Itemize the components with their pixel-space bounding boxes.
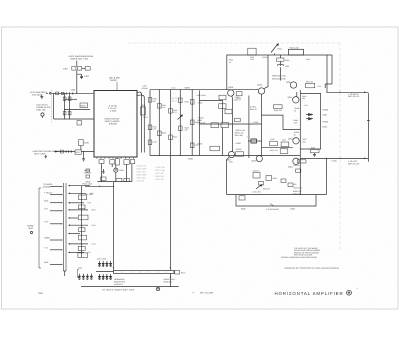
right main vertical rail (299, 90, 301, 195)
wire vertical x159 (158, 90, 160, 156)
collector bus below block (97, 181, 132, 183)
capacitor C336 (277, 55, 290, 62)
capacitor C306B (235, 118, 241, 122)
wire caps feed to delay bus (96, 271, 114, 273)
junction centre dots (222, 123, 262, 141)
svg-text:R338 15K: R338 15K (274, 109, 283, 112)
svg-text:C335 .01: C335 .01 (170, 100, 178, 103)
svg-text:R344 8K: R344 8K (306, 80, 314, 83)
bias resistor R363 (259, 182, 264, 186)
box R305 (80, 103, 88, 108)
resistor R386 (79, 228, 86, 232)
resistor R329 on cable (140, 104, 145, 115)
svg-text:R326 56K: R326 56K (137, 177, 147, 180)
wire vertical x222.5 (222, 100, 224, 156)
svg-text:C328 120: C328 120 (155, 178, 165, 181)
svg-text:+120: +120 (198, 102, 202, 105)
svg-text:C313: C313 (246, 136, 250, 139)
divider chain vertical (81, 186, 83, 257)
svg-text:(FRONT): (FRONT) (109, 123, 118, 126)
resistor R332 (158, 104, 162, 109)
pot R301 (41, 113, 44, 118)
label L320 cable (142, 85, 149, 90)
value gray mid column (170, 97, 179, 103)
pot R338 arrow (178, 115, 183, 120)
trimmer capacitor column g (86, 274, 88, 280)
svg-text:+8.5V: +8.5V (91, 209, 97, 212)
resistor R330 (148, 98, 152, 103)
riser wires below block (102, 164, 132, 182)
svg-text:Q344: Q344 (288, 96, 293, 99)
svg-text:+R341 150K: +R341 150K (82, 182, 93, 185)
delay line bus L350 (114, 270, 175, 273)
wire peaking hairpin (236, 195, 316, 207)
transistor Q314 (257, 55, 268, 94)
wire mid row (64, 109, 90, 111)
svg-text:R337: R337 (173, 135, 177, 138)
svg-text:B354: B354 (291, 207, 295, 210)
wafer bottom stub (64, 271, 67, 276)
resistor R384 (79, 205, 86, 209)
svg-text:L304 +6.09: L304 +6.09 (197, 94, 206, 97)
svg-text:1-MAG: 1-MAG (110, 110, 117, 113)
transistor Q334 (286, 81, 297, 88)
svg-text:R343 C343: R343 C343 (290, 46, 299, 49)
scattered value labels centre columns (144, 98, 199, 147)
trimmer capacitor column b (102, 261, 104, 267)
trimmer capacitor column c (106, 261, 108, 267)
junction lower row (64, 118, 65, 119)
resistor R313c (251, 139, 257, 143)
junction sawtooth (83, 151, 84, 152)
ground sawtooth (82, 152, 85, 162)
svg-text:R360 5K: R360 5K (263, 188, 271, 191)
transistor Q354 (288, 138, 299, 145)
svg-text:C336: C336 (285, 59, 289, 62)
svg-text:PARTIAL HORIZONTAL AMPLIFIER B: PARTIAL HORIZONTAL AMPLIFIER BOARD (281, 256, 318, 259)
bracket caps group (78, 270, 80, 278)
svg-text:+ C369: + C369 (331, 160, 337, 163)
junction node gate/input (76, 93, 77, 94)
trimmer capacitor column f (82, 274, 84, 280)
svg-text:C304A: C304A (262, 56, 268, 59)
svg-text:R366 6.8K: R366 6.8K (294, 187, 303, 190)
svg-text:(VIA J301): (VIA J301) (32, 94, 42, 97)
wire vertical x180 (179, 90, 181, 156)
shield dashed input (51, 90, 53, 123)
svg-text:MAG: MAG (44, 199, 49, 202)
diode CR352 (306, 118, 313, 120)
wire to switch (85, 186, 114, 188)
wire emitter Q303 down (227, 157, 230, 195)
wire vertical x249 (248, 96, 250, 159)
below-block resistor R322 (110, 160, 115, 164)
labels R336 C342 (272, 75, 286, 81)
sawtooth input label (32, 150, 60, 156)
svg-text:Q364: Q364 (288, 166, 293, 169)
circled plus mark (347, 290, 352, 295)
capacitor C301 on input (56, 92, 64, 95)
svg-text:R327 270K: R327 270K (155, 169, 166, 172)
resistor ticks sawtooth (66, 150, 71, 152)
resistor R302 top (248, 48, 256, 61)
svg-text:DC SHIFT: DC SHIFT (249, 123, 258, 126)
box R317 (75, 150, 81, 154)
svg-text:C361: C361 (78, 267, 82, 270)
resistor R314 (211, 123, 219, 128)
label SW302 above block (109, 77, 120, 91)
resistor R328 lower (124, 178, 129, 181)
svg-text:SWEEP GEN. V135: SWEEP GEN. V135 (70, 58, 89, 61)
input connector J301 (46, 92, 51, 94)
contact rows left of wafer (50, 186, 63, 265)
wire vertical x150 (149, 90, 151, 156)
svg-text:REV. JUN 1969: REV. JUN 1969 (200, 292, 213, 295)
svg-text:R363 1K: R363 1K (294, 164, 302, 167)
svg-text:R340: R340 (185, 100, 189, 103)
right column value labels (294, 107, 300, 137)
wire bottom return line (227, 158, 327, 194)
value list gray column 1 (137, 165, 148, 183)
svg-text:R301 1M): R301 1M) (37, 109, 46, 112)
trimmer capacitor column h (90, 274, 92, 280)
svg-text:R347: R347 (271, 138, 275, 141)
resistor R306 (63, 112, 66, 115)
resistor R371 output (175, 271, 185, 275)
svg-text:+1.2V: +1.2V (91, 243, 97, 246)
wire long vertical to delay line left (113, 182, 115, 271)
resistor R389 (78, 253, 88, 258)
shield boundary dash-dot line (128, 43, 340, 250)
transistor Q344 (288, 92, 299, 103)
switch wafer bars (64, 183, 67, 271)
trimmer capacitor column a (98, 261, 100, 267)
resistor R307 (68, 112, 71, 115)
transistor Q364 (288, 158, 299, 168)
diode CR350 (306, 113, 313, 115)
junction output dots (326, 92, 341, 159)
svg-text:MAG: MAG (29, 227, 34, 230)
svg-text:+ TRACE: + TRACE (44, 191, 53, 194)
CRT deflection plate bar (367, 93, 370, 161)
svg-text:R336 5.6K C341: R336 5.6K C341 (272, 75, 286, 78)
svg-text:R311 39K: R311 39K (235, 134, 244, 137)
resistor R315 (221, 123, 229, 128)
resistor R304 (68, 97, 71, 100)
resistor R310 (225, 109, 232, 114)
transistor Q303 lower (226, 96, 235, 161)
wire row y100.5 (200, 100, 223, 102)
svg-text:R351 470: R351 470 (270, 149, 278, 152)
resistor R343 top (289, 46, 304, 55)
svg-text:R328 10K: R328 10K (155, 175, 165, 178)
svg-text:+215: +215 (317, 85, 321, 88)
gate input text (68, 55, 93, 61)
svg-text:C331: C331 (153, 140, 157, 143)
rail +225V (150, 87, 258, 90)
vertical branch x64.5 (64, 93, 66, 119)
svg-text:R307A 1M: R307A 1M (235, 131, 244, 134)
value gray labels left-centre (198, 117, 206, 146)
block SW302 horizontal display switch (94, 91, 137, 160)
attenuator C302 (63, 67, 90, 71)
svg-text:B356: B356 (241, 207, 245, 210)
svg-text:C342: C342 (195, 143, 199, 146)
svg-text:C320 5-25: C320 5-25 (137, 165, 147, 168)
resistor R339 (179, 126, 183, 131)
svg-text:HORIZONTAL AMPLIFIER: HORIZONTAL AMPLIFIER (275, 291, 344, 296)
svg-text:+ R309: + R309 (235, 142, 241, 145)
resistor R312 (236, 92, 242, 100)
svg-text:+R350: +R350 (322, 109, 328, 112)
vertical branch x69.5 (69, 95, 71, 119)
svg-text:DEFL PLATE: DEFL PLATE (348, 163, 360, 166)
capacitor C364 box (298, 160, 307, 163)
svg-text:GEN. V161B: GEN. V161B (34, 152, 46, 155)
contact rows right of wafer (68, 185, 90, 253)
resistor R303 (63, 97, 66, 100)
block inner text HORIZONTAL DISPLAY SWITCH (105, 105, 121, 126)
arrow into delay line left (113, 267, 115, 269)
resistor R348 (270, 141, 278, 146)
bias resistor R362 (288, 183, 293, 187)
svg-text:C321 .001: C321 .001 (137, 171, 147, 174)
resistor R311 (219, 95, 226, 100)
transistor Q304 (227, 55, 234, 96)
capacitor C358 (253, 170, 261, 179)
resistor R366 (296, 169, 301, 172)
resistor R326 lower (101, 177, 106, 180)
arrow sawtooth feed (54, 151, 57, 153)
rail +225V upper right (227, 54, 333, 56)
capacitor C311 (219, 104, 226, 109)
junction input (64, 93, 65, 94)
vertical link x53.5 (53, 93, 55, 119)
wire right output top (327, 55, 368, 92)
scattered labels right loop (270, 95, 308, 152)
svg-text:TO HORIZ SWEEP AMP V350: TO HORIZ SWEEP AMP V350 (102, 288, 135, 291)
trimmer capacitor lower row a (98, 274, 100, 280)
svg-text:R322: R322 (144, 116, 148, 119)
svg-text:R325 100K: R325 100K (137, 174, 148, 177)
svg-text:R359: R359 (273, 177, 277, 180)
svg-text:Q334: Q334 (286, 81, 291, 84)
svg-text:Q313: Q313 (252, 159, 257, 162)
label horiz gain (164, 278, 176, 284)
chassis terminal symbol (156, 287, 159, 290)
resistor R327 lower (116, 178, 122, 181)
svg-text:C325 82: C325 82 (137, 180, 145, 183)
resistor R351b (280, 149, 288, 154)
wire rail right drop (325, 55, 332, 88)
below-block capacitor C322 (115, 159, 119, 165)
svg-text:R325: R325 (120, 169, 124, 172)
capacitor C331 (148, 140, 152, 145)
svg-text:+R352: +R352 (322, 121, 328, 124)
junction dots on rails (159, 89, 193, 156)
svg-text:R341: R341 (195, 121, 199, 124)
below-block resistor R321 (99, 160, 104, 164)
trimmer capacitor column d (109, 261, 111, 267)
svg-text:R370 ADJ: R370 ADJ (164, 281, 173, 284)
trimmer capacitor lower row d (109, 274, 111, 280)
wire vertical x192 (191, 90, 193, 156)
capacitor C342 (190, 143, 194, 148)
capacitor C306 (77, 121, 82, 125)
note voltage waveform conditions (281, 247, 321, 259)
resistor R385 (79, 215, 89, 220)
label horiz display (84, 169, 92, 174)
svg-text:+30: +30 (293, 183, 296, 186)
svg-text:T502: T502 (38, 292, 44, 295)
ground below block (102, 169, 105, 174)
inductor L336 (278, 61, 290, 80)
trimmer capacitor bank labels (78, 258, 106, 270)
resistor B356 box (239, 196, 245, 211)
junction lower wire (113, 186, 114, 187)
wire vertical x199.5 (199, 91, 201, 156)
svg-text:C352: C352 (322, 126, 327, 129)
svg-text:(NORM): (NORM) (43, 186, 50, 189)
svg-text:+12.6: +12.6 (171, 87, 176, 90)
wire delay to ground bus (170, 274, 172, 287)
capacitor C313 (246, 136, 262, 144)
capacitor C310 (236, 152, 244, 156)
svg-text:MAG: MAG (44, 261, 49, 264)
svg-text:C358 10: C358 10 (253, 170, 260, 173)
wire input line (51, 92, 94, 94)
trimmer capacitor lower row c (106, 274, 108, 280)
svg-text:4.7K PEAKING: 4.7K PEAKING (266, 208, 279, 211)
resistor R342 (190, 120, 194, 125)
resistor R338b (274, 105, 283, 112)
svg-text:22M: 22M (229, 161, 233, 164)
svg-text:R333: R333 (162, 131, 166, 134)
svg-text:R346 12K C346: R346 12K C346 (272, 78, 285, 81)
label to left defl plate (348, 160, 360, 166)
switch row labels left (43, 183, 53, 264)
centre value labels (234, 96, 258, 151)
resistor R383 (79, 195, 87, 200)
svg-text:+150V SW: +150V SW (155, 166, 165, 169)
svg-text:SW302: SW302 (110, 79, 118, 82)
svg-text:Q354: Q354 (288, 138, 293, 141)
box R318 (210, 146, 220, 151)
coax cable pair from block (137, 92, 144, 152)
switch row value labels right (82, 182, 97, 254)
resistor R349 (281, 142, 289, 147)
svg-text:R370: R370 (181, 272, 185, 275)
wire lower feedback row (262, 147, 293, 149)
left lower parts R319 (86, 169, 92, 184)
svg-text:R334: R334 (278, 48, 282, 51)
resistor R344 (306, 80, 315, 87)
resistor R365 (311, 147, 320, 157)
svg-text:R314 2K: R314 2K (250, 108, 258, 111)
svg-text:R365: R365 (311, 147, 315, 150)
svg-text:+225V: +225V (184, 87, 191, 90)
ground bus bottom (81, 286, 179, 288)
capacitor C303 branch (77, 74, 90, 79)
svg-text:NORM: NORM (44, 237, 50, 240)
resistor R331 (148, 125, 152, 130)
wire left output bottom (300, 157, 368, 159)
wire long vertical to delay line right (170, 156, 172, 271)
switch SW350 bracket (27, 188, 41, 268)
wire gate input down (76, 61, 78, 94)
svg-text:WWW.ELECTROTANYA.COM-SEARCHABL: WWW.ELECTROTANYA.COM-SEARCHABLE (285, 267, 340, 270)
ground sawtooth label (45, 155, 47, 158)
svg-text:C350: C350 (322, 114, 327, 117)
value list gray column 2 (155, 166, 166, 181)
resistor R316 vertical (79, 140, 90, 152)
staircase wire to output stage (262, 115, 301, 129)
svg-text:C310B: C310B (236, 148, 242, 151)
wire lower input row (54, 118, 95, 120)
svg-text:C361 .005: C361 .005 (253, 191, 261, 194)
svg-text:C327 .047: C327 .047 (155, 172, 165, 175)
resistor R337 (169, 135, 173, 140)
feedback loop box (300, 94, 320, 150)
scattered labels upper right (229, 56, 321, 88)
bias resistor R361 (281, 179, 286, 183)
wire vertical x170 (170, 90, 172, 156)
below-block resistor R324 (130, 160, 135, 164)
svg-text:+2.5V: +2.5V (91, 224, 97, 227)
rail -150V (150, 156, 300, 161)
svg-text:C347: C347 (282, 139, 286, 142)
svg-text:DEFL PLATE: DEFL PLATE (348, 95, 360, 98)
ground input (40, 95, 43, 99)
below-block resistor R323 (124, 160, 129, 165)
svg-text:(COAX): (COAX) (142, 87, 149, 90)
transistor Q313 lower (252, 94, 263, 162)
volts probe note (37, 104, 51, 112)
resistor R341 (190, 100, 194, 105)
pot R360 adj (256, 185, 271, 191)
svg-text:+104: +104 (304, 104, 308, 107)
inductor peaking label (266, 204, 279, 212)
resistor R388 (78, 246, 85, 250)
value column right (322, 109, 328, 129)
label to right defl plate (348, 93, 360, 98)
resistor ticks input (66, 92, 73, 94)
resistor R359 (266, 176, 277, 181)
resistor R333 (158, 131, 162, 136)
resistor R340 (179, 98, 183, 103)
pot R325 norm regis (114, 168, 124, 172)
resistor R336 (169, 109, 173, 114)
wire row y125 (200, 123, 223, 125)
wire sawtooth line (57, 151, 94, 153)
svg-text:10%: 10% (250, 58, 254, 61)
wire upper link row (65, 98, 77, 100)
svg-text:L336: L336 (285, 65, 289, 68)
ext horiz input label (30, 91, 48, 97)
svg-text:C357 C358: C357 C358 (97, 258, 106, 261)
trimmer capacitor column e (78, 274, 80, 280)
svg-text:L343: L343 (306, 58, 310, 61)
trimmer capacitor lower row b (102, 274, 104, 280)
svg-text:-150V: -150V (188, 158, 194, 161)
svg-text:(ADJUST): (ADJUST) (114, 283, 123, 286)
wire row y124 centre (223, 123, 262, 125)
svg-text:R329: R329 (141, 104, 145, 107)
pot R334 regis (271, 44, 282, 55)
label normal mag registration (114, 278, 125, 286)
svg-text:R320 150K: R320 150K (137, 168, 148, 171)
arrow into delay line right (170, 267, 172, 269)
